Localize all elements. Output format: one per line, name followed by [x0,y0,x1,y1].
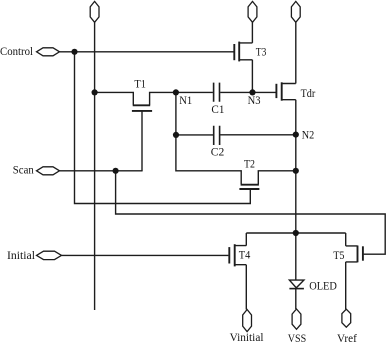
svg-text:T4: T4 [239,250,251,262]
svg-text:N3: N3 [248,95,261,107]
svg-text:Control: Control [0,46,33,58]
svg-text:C2: C2 [211,147,225,159]
svg-text:VSS: VSS [288,333,307,343]
svg-text:Vinitial: Vinitial [230,332,264,343]
svg-text:Vref: Vref [337,333,357,343]
svg-text:T2: T2 [244,159,255,171]
svg-text:T1: T1 [134,78,146,90]
svg-text:Initial: Initial [7,250,35,262]
svg-text:T5: T5 [333,250,345,262]
svg-text:OLED: OLED [309,280,337,292]
svg-text:N2: N2 [302,130,315,142]
svg-text:N1: N1 [179,95,192,107]
svg-text:Tdr: Tdr [301,88,316,100]
svg-text:Scan: Scan [13,165,34,177]
svg-text:C1: C1 [211,104,224,116]
svg-text:T3: T3 [256,46,267,58]
